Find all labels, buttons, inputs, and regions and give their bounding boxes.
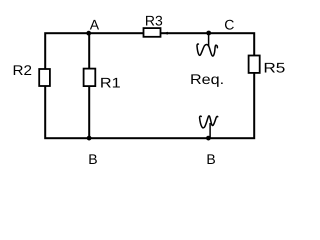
svg-text:B: B: [88, 151, 97, 167]
svg-text:R2: R2: [13, 62, 33, 78]
svg-text:R3: R3: [145, 12, 163, 28]
svg-text:B: B: [206, 151, 215, 167]
svg-text:Req.: Req.: [190, 71, 224, 87]
svg-text:R1: R1: [100, 75, 121, 91]
svg-text:R5: R5: [263, 59, 285, 75]
svg-text:A: A: [90, 17, 100, 33]
svg-text:C: C: [224, 17, 234, 33]
